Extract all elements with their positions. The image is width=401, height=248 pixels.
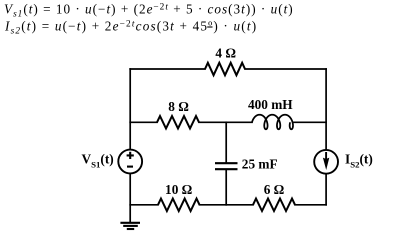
svg-text:4 Ω: 4 Ω bbox=[215, 45, 236, 60]
svg-text:10 Ω: 10 Ω bbox=[165, 182, 193, 197]
svg-text:Vs1(t) = 10 · u(−t) + (2e−2t +: Vs1(t) = 10 · u(−t) + (2e−2t + 5 · cos(3… bbox=[4, 2, 294, 20]
wire middle row from inductor to right vertical bbox=[293, 121, 326, 123]
svg-text:VS1(t): VS1(t) bbox=[82, 152, 114, 170]
wire bottom row between 10ohm and 6ohm bbox=[200, 204, 254, 206]
ground symbol bbox=[120, 223, 140, 229]
arrow inside Is2 pointing down bbox=[325, 152, 327, 160]
equation Is2(t) source definition bbox=[4, 19, 257, 37]
resistor 6 ohm (bottom right) bbox=[253, 199, 295, 211]
wire middle row left lead to 8ohm bbox=[130, 121, 157, 123]
resistor 8 ohm (row 2 left) bbox=[157, 116, 199, 128]
svg-text:8 Ω: 8 Ω bbox=[168, 99, 189, 114]
resistor 4 ohm (top) bbox=[205, 63, 245, 75]
equation Vs1(t) source definition bbox=[4, 2, 294, 20]
svg-text:6 Ω: 6 Ω bbox=[264, 182, 285, 197]
wire middle vertical from row2 junction to capacitor top bbox=[225, 122, 227, 162]
underline of ordinal degree in 45 bbox=[207, 26, 212, 28]
wire top-left vertical segment (node A to Vs1 top) bbox=[129, 69, 131, 150]
svg-text:Is2(t) = u(−t) + 2e−2tcos(3t +: Is2(t) = u(−t) + 2e−2tcos(3t + 45º) · u(… bbox=[4, 19, 257, 37]
wire Vs1 bottom to bottom-left corner and ground stem bbox=[129, 174, 131, 223]
wire right vertical bottom (Is2 bottom to corner) bbox=[325, 174, 327, 205]
wire top horizontal right lead from 4ohm bbox=[245, 68, 326, 70]
wire bottom row left lead to 10ohm bbox=[130, 204, 158, 206]
capacitor 25 mF bbox=[215, 163, 238, 169]
resistor 10 ohm (bottom left) bbox=[158, 199, 200, 211]
minus sign inside Vs1 bbox=[127, 166, 133, 168]
voltage source Vs1 circle bbox=[118, 150, 142, 174]
inductor 400 mH bbox=[252, 115, 293, 130]
wire middle row between 8ohm and inductor bbox=[199, 121, 252, 123]
svg-text:IS2(t): IS2(t) bbox=[345, 152, 373, 170]
wire middle vertical from capacitor bottom to bottom wire bbox=[225, 169, 227, 204]
svg-text:25 mF: 25 mF bbox=[242, 156, 278, 171]
svg-text:400 mH: 400 mH bbox=[248, 97, 293, 112]
plus sign inside Vs1 bbox=[127, 152, 134, 159]
wire top horizontal left lead to 4ohm bbox=[130, 68, 205, 70]
current source Is2 circle bbox=[314, 150, 338, 174]
wire right vertical top (corner to Is2 top) bbox=[325, 69, 327, 150]
wire bottom row from 6ohm to right corner bbox=[295, 204, 326, 206]
